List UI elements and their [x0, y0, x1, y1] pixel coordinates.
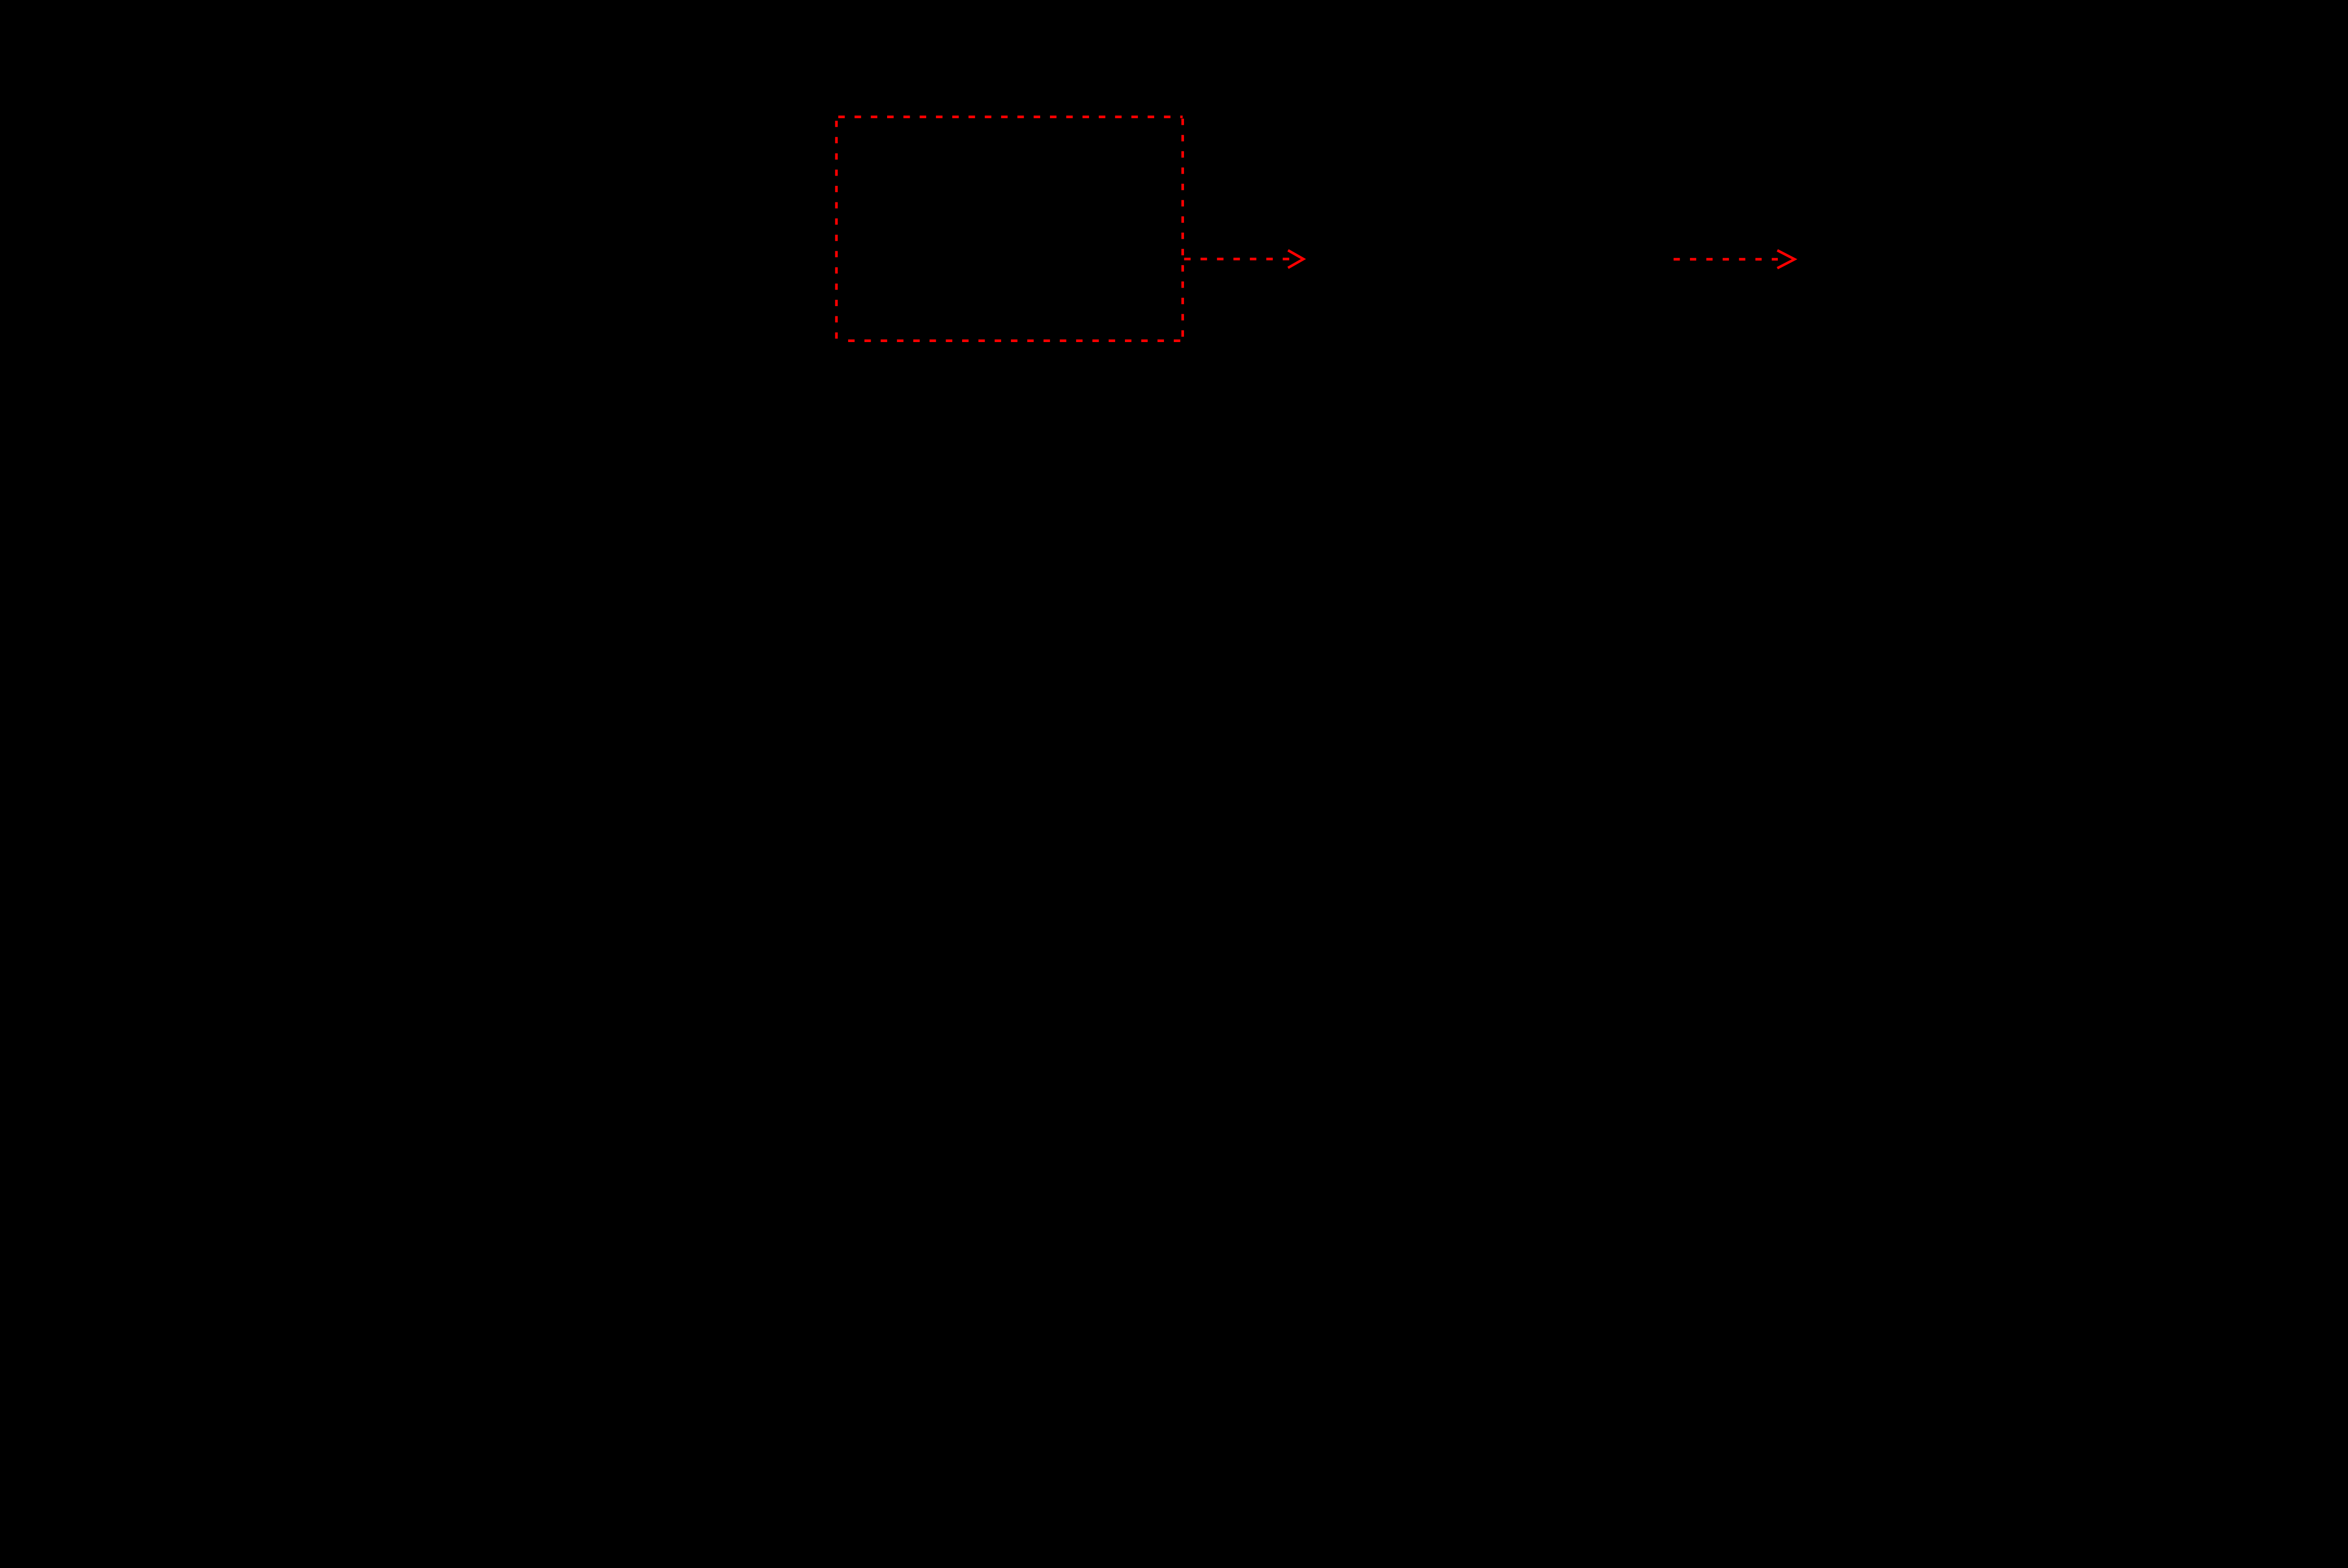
wire: stage-1 top rail right of R1: [1022, 258, 1151, 260]
current source I2 (equivalent source): [1844, 406, 1937, 498]
node b terminal (stage 3): [2225, 639, 2236, 650]
wire: stage-1 left vertical (bottom): [179, 498, 181, 645]
current source I1 arrowhead: [1388, 424, 1406, 441]
junction dot at R2 bottom: [612, 640, 621, 649]
resistor Req (stage 3): [2086, 259, 2127, 614]
current source I1: [1351, 406, 1443, 498]
node a terminal (stage 3): [2225, 254, 2236, 265]
wire: stage-3 left vertical (bottom): [1889, 498, 1891, 645]
wire: stage-1 bottom rail: [180, 644, 1151, 646]
resistor R1 (inside highlight box): [873, 239, 1022, 280]
highlight box (red dashed) around vs-R1 source network: [836, 117, 1182, 342]
node b terminal (stage 1): [1152, 639, 1162, 650]
wire: stage-2 top rail: [1397, 258, 1613, 260]
junction dot at R2 top: [612, 255, 621, 263]
svg-text:b: b: [1148, 681, 1165, 715]
node b terminal (stage 2): [1614, 639, 1624, 650]
wire: stage-3 left vertical (top): [1889, 259, 1891, 406]
current source I2 arrowhead: [1881, 424, 1900, 441]
junction dot stage-2 top: [1537, 255, 1545, 263]
wire: stage-2 left vertical (bottom): [1396, 498, 1398, 645]
junction dot stage-3 top: [2102, 255, 2110, 263]
junction dot stage-2 bottom: [1537, 640, 1545, 649]
junction dot stage-3 bottom: [2102, 640, 2110, 649]
node a terminal (stage 2): [1614, 254, 1624, 265]
svg-text:a: a: [1148, 203, 1166, 238]
wire: stage-1 left vertical (top): [179, 259, 181, 406]
resistor R2 (shunt branch, stage 1): [596, 259, 637, 614]
transformation arrow 1 head: [1288, 250, 1304, 268]
wire: stage-2 bottom rail: [1397, 644, 1613, 646]
wire: stage-1 top rail: [180, 258, 873, 260]
wire: stage-3 top rail: [1890, 258, 2224, 260]
transformation arrow 2 (red dashed shaft): [1674, 258, 1778, 260]
wire: stage-3 bottom rail: [1890, 644, 2224, 646]
node a terminal (stage 1): [1152, 254, 1162, 265]
transformation arrow 1 (red dashed shaft): [1184, 258, 1289, 260]
voltage source V1 (vs): [134, 406, 226, 498]
resistor R1 parallel (stage 2): [1520, 259, 1562, 614]
wire: stage-2 left vertical (top): [1396, 259, 1398, 406]
transformation arrow 2 head: [1777, 250, 1795, 268]
